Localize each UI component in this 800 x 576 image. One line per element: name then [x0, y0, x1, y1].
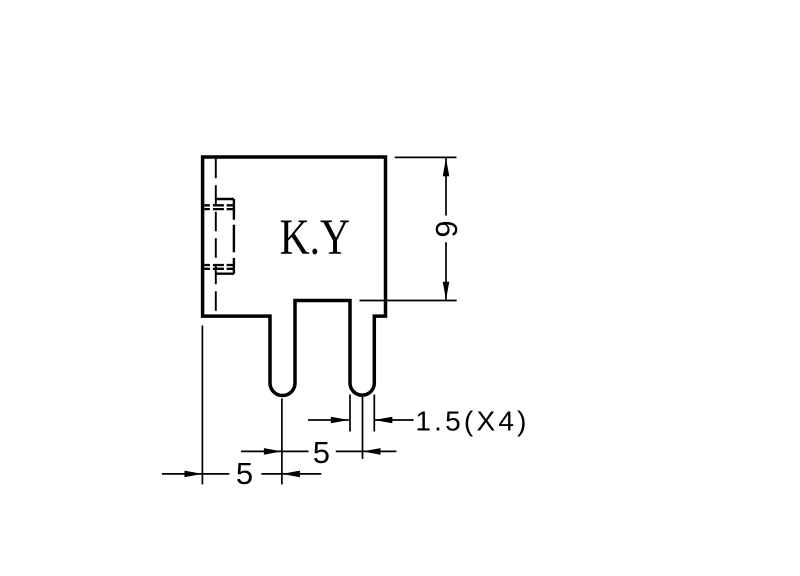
dimension line 5 bottom right — [261, 473, 321, 475]
dimension line 1.5 left — [308, 419, 349, 421]
dimension line 5 middle right — [336, 450, 397, 452]
clip slot dashed line 3 — [204, 264, 234, 266]
body outline — [203, 157, 386, 396]
arrow 1.5 left — [331, 417, 349, 424]
extension line pin2 center — [362, 397, 364, 459]
svg-text:K.Y: K.Y — [280, 210, 350, 266]
arrow 5 bottom right — [282, 471, 300, 478]
clip slot dashed line 2 — [204, 208, 234, 210]
svg-text:5: 5 — [313, 435, 330, 470]
dimension line 1.5 right — [374, 419, 413, 421]
clip slot dashed line 1 — [204, 204, 234, 206]
arrow 5 middle left — [264, 448, 282, 455]
arrow 9 bottom — [443, 282, 450, 300]
clip right dashed line — [233, 199, 235, 274]
dimension line 9 upper segment — [445, 158, 447, 216]
dimension line 5 bottom left — [162, 473, 229, 475]
extension line pin2 left edge — [349, 395, 351, 432]
extension line pin2 right edge — [373, 395, 375, 432]
clip bottom line — [216, 273, 234, 275]
svg-text:9: 9 — [429, 220, 464, 237]
svg-text:5: 5 — [236, 456, 253, 491]
clip top line — [216, 198, 234, 200]
arrow 5 bottom left — [184, 471, 202, 478]
extension line pin1 center — [281, 399, 283, 485]
svg-text:1.5(X4): 1.5(X4) — [415, 405, 529, 436]
arrow 9 top — [443, 158, 450, 176]
extension line body left — [201, 326, 203, 485]
center dashed line — [215, 159, 217, 315]
arrow 5 middle right — [363, 448, 381, 455]
extension line top of 9 — [395, 156, 457, 158]
dimension line 9 lower segment — [445, 242, 447, 299]
extension line bottom of 9 — [360, 300, 457, 302]
arrow 1.5 right — [374, 417, 392, 424]
clip slot dashed line 4 — [204, 268, 234, 270]
dimension line 5 middle left — [241, 450, 309, 452]
